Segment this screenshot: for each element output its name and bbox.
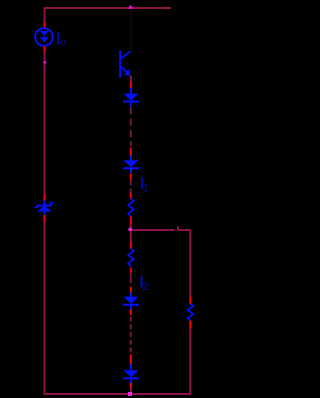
node marker top (magenta triangle) bbox=[128, 5, 133, 9]
pin top of D2 bbox=[130, 148, 132, 156]
resistor R2 bbox=[128, 249, 133, 267]
diode D3 bbox=[123, 292, 139, 310]
wire left branch lower bbox=[44, 222, 46, 395]
pin top of R3 bbox=[189, 297, 191, 304]
diode D4 bbox=[123, 364, 139, 383]
wire bottom rail bbox=[44, 393, 192, 395]
label I1 bbox=[141, 177, 149, 194]
wire left branch middle bbox=[44, 52, 46, 194]
pin top of D1 bbox=[130, 82, 132, 88]
pin bottom of R1 bbox=[130, 216, 132, 224]
svg-text:1: 1 bbox=[143, 182, 149, 194]
pin bottom of current source bbox=[44, 46, 46, 52]
dashed wire D3-D4 bbox=[130, 317, 132, 353]
wire emitter to D1 bbox=[130, 76, 132, 83]
faint collector stub wire bbox=[130, 9, 132, 51]
junction node mid bbox=[129, 228, 132, 231]
wire node to right (right part with tick) bbox=[178, 227, 190, 231]
transistor Q1 bbox=[120, 51, 130, 78]
current source I0 bbox=[35, 28, 53, 46]
pin top of D4 bbox=[130, 355, 132, 365]
pin top of zener bbox=[44, 194, 46, 201]
pin bottom of zener bbox=[44, 215, 46, 222]
wire node down bbox=[130, 231, 132, 242]
svg-text:2: 2 bbox=[142, 281, 148, 293]
label I0 bbox=[57, 32, 66, 48]
wire R1 to node bbox=[130, 225, 132, 230]
pin bottom of R2 bbox=[130, 268, 132, 273]
wire right branch lower bbox=[189, 329, 191, 395]
pin bottom of D3 bbox=[130, 310, 132, 316]
pin top of current source bbox=[44, 23, 46, 28]
junction node bottom bbox=[128, 392, 132, 396]
resistor R1 bbox=[128, 198, 133, 216]
svg-text:o: o bbox=[60, 36, 66, 48]
pin bottom of D4 bbox=[130, 383, 132, 388]
pin top of R1 bbox=[130, 193, 132, 199]
pin bottom of R3 bbox=[189, 321, 191, 329]
wire D4 to bottom rail bbox=[130, 388, 132, 394]
resistor R3 bbox=[188, 304, 193, 321]
node marker left (magenta) bbox=[43, 61, 47, 65]
dashed wire D2-R1 bbox=[130, 180, 132, 193]
pin top of D3 bbox=[130, 287, 132, 293]
wire node to right (left part) bbox=[132, 229, 175, 231]
wire right branch upper bbox=[189, 230, 191, 297]
zener diode D0 bbox=[34, 201, 53, 216]
diode D2 bbox=[123, 156, 139, 174]
dashed wire R2-D3 bbox=[130, 273, 132, 283]
pin bottom of D2 bbox=[130, 173, 132, 179]
label I2 bbox=[140, 276, 148, 293]
wire top rail bbox=[44, 7, 172, 9]
diode D1 bbox=[123, 88, 139, 107]
pin top of R2 bbox=[130, 242, 132, 249]
dashed wire D1-D2 bbox=[130, 107, 132, 146]
wire left branch upper bbox=[44, 8, 46, 23]
